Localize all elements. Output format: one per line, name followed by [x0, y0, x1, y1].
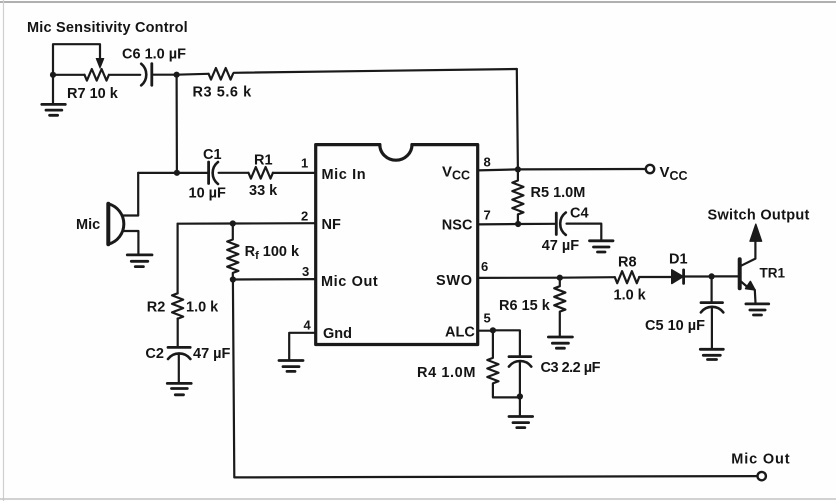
svg-text:C3 2.2 µF: C3 2.2 µF [541, 360, 601, 376]
ground pin4 [279, 361, 303, 372]
wire ALC row [478, 330, 493, 332]
mic top terminal wire [123, 173, 138, 216]
svg-text:R6 15 k: R6 15 k [499, 298, 551, 314]
wire C6 node down to mic-in node [176, 75, 178, 173]
wire R7 to C6 [110, 74, 140, 76]
wire node to TR1 base [712, 275, 738, 277]
switch output arrow [750, 224, 762, 241]
resistor R1 [249, 167, 273, 179]
mic bottom terminal wire [123, 231, 139, 254]
svg-text:C1: C1 [203, 147, 222, 163]
svg-text:33 k: 33 k [249, 183, 278, 199]
capacitor C5 [710, 276, 712, 301]
wire C4 to ground [567, 224, 602, 240]
wire C6 to node [153, 74, 177, 76]
svg-text:D1: D1 [669, 252, 688, 268]
wire mic-in row [138, 172, 208, 174]
node mic-in row [174, 170, 180, 176]
svg-text:SWO: SWO [436, 273, 473, 289]
TR1 collector [740, 241, 756, 266]
svg-text:R8: R8 [618, 254, 637, 270]
ground TR1 [746, 304, 769, 315]
wire node to R3 [177, 73, 208, 76]
wire R7 node to ground [52, 75, 54, 104]
capacitor C2 [168, 346, 190, 349]
wire pin8 row to Vcc terminal [478, 169, 646, 170]
wire C5 to ground [711, 309, 713, 349]
svg-text:R5 1.0M: R5 1.0M [531, 185, 586, 201]
svg-text:3: 3 [302, 264, 309, 279]
capacitor C3 [509, 355, 531, 358]
node NF/Rf [230, 220, 236, 226]
terminal Mic Out [758, 472, 766, 480]
wire SWO row [478, 276, 615, 279]
wire C3 to bottom node [519, 363, 521, 397]
svg-text:ALC: ALC [445, 324, 475, 340]
svg-text:Mic Out: Mic Out [321, 274, 378, 290]
diode D1 [672, 270, 683, 284]
svg-text:Switch Output: Switch Output [708, 208, 810, 224]
ground C4 [590, 241, 614, 252]
node R7 left [50, 72, 56, 78]
ground R7 [42, 104, 66, 115]
TR1 emitter [740, 281, 749, 288]
svg-text:TR1: TR1 [760, 265, 786, 280]
transistor TR1 [738, 259, 742, 288]
node SWO/R6 [557, 275, 563, 281]
wire pin3 row [233, 278, 316, 281]
IC notch [380, 145, 412, 161]
resistor R6 [554, 278, 565, 336]
svg-text:2: 2 [301, 209, 308, 224]
svg-text:VCC: VCC [442, 164, 470, 183]
svg-text:47 µF: 47 µF [542, 238, 580, 254]
svg-text:R2: R2 [147, 300, 166, 316]
resistor R2 [172, 293, 183, 318]
scan edge bottom [0, 498, 836, 500]
wire NF down to R2 [177, 224, 179, 294]
resistor Rf [227, 224, 238, 280]
svg-text:C2: C2 [145, 346, 164, 362]
svg-text:C4: C4 [570, 206, 589, 222]
wire pin7 row [478, 223, 556, 226]
svg-text:5: 5 [484, 311, 491, 326]
ground R4/C3 [509, 417, 533, 428]
svg-text:1.0 k: 1.0 k [186, 300, 219, 316]
svg-text:NSC: NSC [442, 217, 473, 233]
node pin3/Rf [230, 276, 236, 282]
wire R1 to pin1 [273, 172, 316, 174]
R7 wiper bracket and arrow [53, 44, 100, 75]
wire C2 to ground [178, 354, 180, 383]
wire NF row [178, 222, 316, 225]
svg-text:R4 1.0M: R4 1.0M [417, 365, 476, 381]
scan edge top [0, 1, 836, 3]
svg-text:Mic: Mic [76, 217, 100, 233]
wire mic-out long run [233, 280, 758, 478]
wire ALC to C3 branch [493, 330, 520, 356]
svg-text:1: 1 [301, 156, 308, 171]
capacitor C1 [207, 162, 210, 184]
svg-text:1.0 k: 1.0 k [614, 288, 647, 304]
node NSC row [515, 221, 521, 227]
wire pin4 to ground [289, 333, 316, 360]
wire R3 to top-right bend [234, 69, 517, 73]
terminal Vcc [646, 165, 654, 173]
svg-text:Gnd: Gnd [323, 326, 352, 342]
resistor R3 [209, 68, 233, 80]
svg-text:R1: R1 [254, 153, 273, 169]
svg-text:R3 5.6 k: R3 5.6 k [193, 85, 253, 101]
capacitor C6 [141, 64, 146, 86]
ground R6 [548, 337, 572, 348]
wire R8 to D1 [639, 276, 672, 278]
svg-text:C6 1.0 µF: C6 1.0 µF [122, 47, 186, 63]
ground mic [127, 255, 152, 267]
capacitor C4 [555, 213, 558, 235]
node Vcc row [515, 166, 521, 172]
ground C2 [167, 383, 191, 394]
svg-text:8: 8 [484, 155, 491, 170]
svg-text:VCC: VCC [660, 164, 688, 183]
svg-text:R7 10 k: R7 10 k [67, 86, 119, 102]
scan edge left [3, 0, 5, 501]
resistor R4 [487, 330, 520, 397]
wire R2 to C2 [177, 319, 179, 347]
svg-text:NF: NF [322, 217, 341, 233]
wire top row left [53, 74, 85, 76]
svg-text:6: 6 [481, 259, 488, 274]
microphone Mic body [106, 204, 110, 244]
node D1/C5/TR1 [709, 273, 715, 279]
svg-text:Mic Sensitivity Control: Mic Sensitivity Control [27, 20, 188, 36]
node C6/R3 [174, 72, 180, 78]
node R4/C3 [517, 393, 523, 399]
ground C5 [700, 349, 723, 359]
wire C1 to R1 [219, 172, 248, 174]
svg-text:C5 10 µF: C5 10 µF [645, 318, 705, 334]
svg-text:Rf 100 k: Rf 100 k [245, 244, 300, 262]
potentiometer R7 [85, 69, 109, 81]
svg-text:4: 4 [304, 318, 312, 333]
resistor R5 [512, 169, 523, 224]
svg-text:Mic In: Mic In [322, 167, 367, 183]
svg-text:10 µF: 10 µF [189, 186, 227, 202]
node ALC [490, 327, 496, 333]
IC U1 outline [316, 145, 478, 345]
resistor R8 [615, 271, 639, 283]
svg-text:Mic Out: Mic Out [731, 452, 790, 468]
wire node to ground [519, 397, 521, 416]
svg-text:47 µF: 47 µF [193, 346, 231, 362]
wire down to Vcc row [517, 69, 518, 169]
wire D1 to node [684, 275, 712, 277]
svg-text:7: 7 [484, 208, 491, 223]
